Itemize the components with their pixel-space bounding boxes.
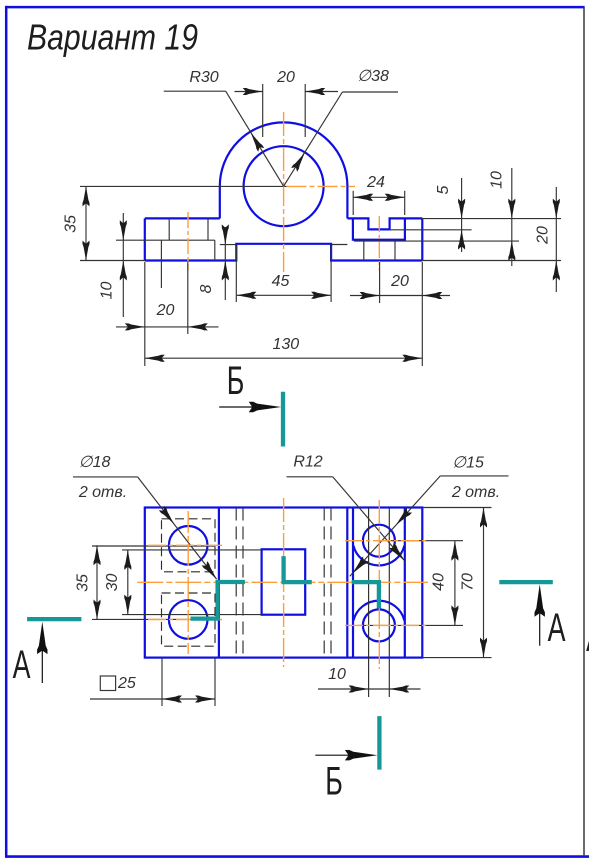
section B bottom arrowhead xyxy=(345,750,378,760)
upper boss R12 arc xyxy=(353,546,404,566)
svg-text:∅38: ∅38 xyxy=(357,68,389,85)
dim 20 bottom-right line xyxy=(350,295,450,297)
orange centerlines plan xyxy=(137,498,428,669)
svg-text:20: 20 xyxy=(276,69,295,86)
dim 10 left line xyxy=(122,213,124,317)
svg-text:Б: Б xyxy=(325,759,343,804)
svg-text:10: 10 xyxy=(489,171,506,189)
section A left arrowhead xyxy=(37,622,47,655)
R30 leader shelf xyxy=(164,90,226,92)
lower boss R12 arc xyxy=(353,601,404,621)
svg-text:∅15: ∅15 xyxy=(452,455,484,472)
lower hole d15 xyxy=(363,609,395,641)
ext 305.2 xyxy=(304,84,306,137)
hidden recess edge right xyxy=(330,508,332,658)
hole d15 edges front right xyxy=(394,241,396,261)
section A right arrow tail xyxy=(539,590,541,646)
arrow 10 up xyxy=(120,261,127,281)
arrow 20top left xyxy=(305,88,325,95)
hidden recess edge left xyxy=(235,508,237,658)
page frame top border xyxy=(5,6,585,9)
dim 10 right line xyxy=(511,168,513,266)
plan arrows xyxy=(94,506,488,703)
dim 70 plan line xyxy=(483,508,485,658)
section B bar top xyxy=(281,392,285,447)
bore circle d38 xyxy=(244,146,324,226)
arrow 35p up xyxy=(94,545,101,565)
arrow 70p down xyxy=(480,638,487,658)
centerline left hole front xyxy=(187,212,189,270)
plan labels xyxy=(75,454,501,693)
dim 20 bottom-left line xyxy=(116,326,219,328)
arrow d18 end xyxy=(202,561,220,581)
centerline boss vertical xyxy=(283,112,285,272)
thin ledge line left xyxy=(220,244,237,246)
center axis extension left xyxy=(80,185,287,187)
upper hole d15 xyxy=(363,525,395,557)
ext 331.1 down xyxy=(330,246,332,302)
arrow 35 top xyxy=(83,186,90,206)
hole d15 edges front left xyxy=(363,241,365,261)
dim 40 plan line xyxy=(454,541,456,626)
dim 130 line xyxy=(145,357,423,359)
section B jog bottom corner xyxy=(352,582,379,608)
arrow 30p up xyxy=(124,550,131,570)
svg-text:R30: R30 xyxy=(189,69,218,86)
upper hole d18 xyxy=(169,526,208,565)
dim sq25 line xyxy=(90,698,215,700)
hole d18 left edge front xyxy=(168,218,170,240)
dashed square upper xyxy=(162,519,216,572)
svg-text:25: 25 xyxy=(117,675,136,692)
page frame left border xyxy=(5,6,8,858)
arrow 40p down xyxy=(451,605,458,625)
arrow 20R up xyxy=(553,261,560,281)
ext upper d18 center xyxy=(92,545,215,547)
ext lower d18 center xyxy=(92,618,216,620)
arrow 30p down xyxy=(124,595,131,615)
arrow sq25 right xyxy=(195,696,215,703)
slot bottom extension line xyxy=(354,240,519,242)
svg-text:5: 5 xyxy=(435,185,452,194)
top edge extension right xyxy=(422,218,561,220)
hole bottom / square top line xyxy=(161,239,214,241)
hidden bore edge right xyxy=(323,508,325,658)
arrow sq25 left xyxy=(162,696,182,703)
plan extension lines xyxy=(73,476,509,706)
svg-text:8: 8 xyxy=(198,284,215,293)
arrow 10R down xyxy=(508,199,515,219)
arrow d15 end xyxy=(350,556,369,576)
right edge xyxy=(421,218,423,260)
svg-text:10: 10 xyxy=(328,666,346,683)
leader R12 diagonal xyxy=(333,477,405,561)
d38 leader shelf xyxy=(342,91,398,93)
svg-text:40: 40 xyxy=(431,573,448,591)
arrow 8 down xyxy=(222,224,229,244)
svg-text:70: 70 xyxy=(460,573,477,591)
bottom edge extension right xyxy=(422,260,561,262)
dim 45 line xyxy=(236,294,331,296)
svg-text:2 отв.: 2 отв. xyxy=(451,484,500,501)
label square symbol xyxy=(100,676,115,691)
dim 30 plan line xyxy=(127,550,129,615)
right block top edge with notch xyxy=(347,218,422,229)
centerline upper d15 horizontal xyxy=(345,540,428,542)
arrow 5 up xyxy=(458,230,465,250)
notch edge left plan xyxy=(368,508,370,698)
centerline main horizontal xyxy=(137,581,428,583)
dashed square lower xyxy=(162,593,216,646)
square 25 right edge front xyxy=(214,240,216,260)
ext square25 right xyxy=(214,658,216,706)
arrow 40p up xyxy=(451,541,458,561)
plan outline rectangle xyxy=(145,508,423,658)
section B top arrowhead xyxy=(249,402,282,412)
centerline upper d18 horizontal xyxy=(148,544,225,546)
boss right tangent xyxy=(346,186,348,218)
ext plan top edge xyxy=(422,507,491,509)
dim 5 right line xyxy=(461,178,463,252)
dim 10 plan line xyxy=(318,688,421,690)
arrow 45 right xyxy=(311,292,331,299)
slot outline right block xyxy=(353,218,405,239)
svg-text:30: 30 xyxy=(104,574,121,592)
section A left arrow tail xyxy=(41,628,43,683)
svg-text:45: 45 xyxy=(272,273,290,290)
bottom edge extension left xyxy=(80,260,145,262)
ext 187.8 down xyxy=(187,262,189,334)
dim 35 plan line xyxy=(96,545,98,619)
boss left tangent xyxy=(219,186,221,218)
arrow 45 left xyxy=(236,292,256,299)
arrow 20BR right xyxy=(360,292,380,299)
arrow 20R down xyxy=(553,199,560,219)
arrow 10R up xyxy=(508,241,515,261)
page frame right border xyxy=(583,7,585,856)
page frame bottom border xyxy=(5,855,589,858)
dim 20 top left part xyxy=(235,91,263,93)
svg-text:А: А xyxy=(548,606,566,651)
ext 353.2 up xyxy=(352,191,354,215)
section A right arrowhead xyxy=(535,584,545,617)
arrow 8 up xyxy=(222,261,229,281)
section B top arrow tail xyxy=(219,406,272,408)
dim 20 right line xyxy=(555,187,557,292)
leader d18 shelf xyxy=(73,476,138,478)
square 25 left edge front xyxy=(160,240,162,288)
ext upper d15 center xyxy=(386,540,463,542)
arrow 5 down xyxy=(458,199,465,219)
ext rect bottom xyxy=(122,614,262,616)
dim 35 line xyxy=(85,186,87,260)
left block top edge xyxy=(145,217,220,219)
arrow 20BL left xyxy=(188,323,208,330)
lower hole d18 xyxy=(169,600,208,639)
centerline right hole front xyxy=(378,216,380,270)
centerline center vertical xyxy=(283,498,285,667)
arrow 35p down xyxy=(94,600,101,620)
thin ledge line right xyxy=(331,244,347,246)
leader d15 diagonal xyxy=(350,476,441,576)
arrow 20top right xyxy=(243,88,263,95)
arrow 24 right xyxy=(385,194,405,201)
arrow 70p up xyxy=(480,508,487,528)
R30 leader diagonal xyxy=(226,91,284,186)
svg-text:20: 20 xyxy=(535,226,552,245)
center boss rect 20x30 xyxy=(262,549,306,614)
svg-text:R12: R12 xyxy=(293,454,322,471)
arrow d18 mid xyxy=(159,506,177,526)
arrow d38 on circle xyxy=(291,151,308,172)
ext 404.7 up xyxy=(404,191,406,215)
arrow R12 end xyxy=(389,543,407,563)
hole d18 right edge front xyxy=(207,218,209,240)
boss outer arc R30 xyxy=(220,122,348,186)
ext 144.8 down xyxy=(144,262,146,366)
centerline boss horizontal right xyxy=(287,185,356,187)
ext square25 left xyxy=(161,658,163,706)
svg-text:2 отв.: 2 отв. xyxy=(78,484,127,501)
section B bottom arrow tail xyxy=(315,754,368,756)
arrow 10 down xyxy=(120,220,127,240)
ext lower d15 center xyxy=(358,624,463,626)
arrow 20BL right xyxy=(125,323,145,330)
arrow R30 on arc xyxy=(248,131,264,152)
left block boundary line xyxy=(218,508,220,658)
ext 262.7 xyxy=(262,84,264,137)
svg-text:∅18: ∅18 xyxy=(79,454,111,471)
left edge xyxy=(144,218,146,260)
section B jog top corner xyxy=(284,556,312,582)
section A bar left xyxy=(27,617,81,621)
leader d15 shelf xyxy=(440,475,508,477)
notch edge right plan xyxy=(388,508,390,698)
orange centerlines front view xyxy=(188,112,379,272)
ext plan bottom edge xyxy=(422,657,491,659)
arrow 10p right xyxy=(349,686,369,693)
dim 24 line xyxy=(353,196,405,198)
ext 379.6 down xyxy=(379,262,381,303)
svg-text:20: 20 xyxy=(156,302,175,319)
centerline right holes vertical xyxy=(378,500,380,669)
leader d18 diagonal xyxy=(138,477,217,579)
ext rect top xyxy=(122,549,262,551)
boss tangent line plan xyxy=(346,508,348,658)
arrow 20BR left xyxy=(422,292,442,299)
bottom with recess xyxy=(145,244,423,261)
ext 422.3 down xyxy=(421,262,423,366)
hidden bore edge left xyxy=(242,508,244,658)
arrow 130 right xyxy=(402,355,422,362)
d38 leader diagonal xyxy=(284,92,343,186)
section B bar bottom xyxy=(377,716,381,770)
front view arrows xyxy=(83,88,560,362)
dim 8 line xyxy=(224,231,226,300)
svg-text:20: 20 xyxy=(390,273,409,290)
hole bottom extension left xyxy=(116,239,161,241)
centerline left holes vertical xyxy=(187,511,189,654)
arrow 24 left xyxy=(353,194,373,201)
svg-text:35: 35 xyxy=(75,574,92,592)
svg-text:Вариант 19: Вариант 19 xyxy=(27,17,198,58)
svg-text:35: 35 xyxy=(63,215,80,233)
section A bar right xyxy=(499,580,553,584)
svg-text:Б: Б xyxy=(227,359,245,404)
slot left edge plan xyxy=(352,508,354,658)
svg-text:10: 10 xyxy=(99,282,116,300)
arrow 35 bottom xyxy=(83,241,90,261)
dim 20 top right part xyxy=(305,91,338,93)
arrow d15 mid xyxy=(393,508,412,528)
section A jog left elbow xyxy=(191,582,245,619)
arrow 10p left xyxy=(389,686,409,693)
ext 236.3 down xyxy=(235,246,237,302)
slot right edge plan xyxy=(404,508,406,658)
front view dim labels xyxy=(63,68,552,353)
notch bottom extension line xyxy=(390,229,472,231)
svg-text:130: 130 xyxy=(272,336,299,353)
leader R12 shelf xyxy=(287,476,333,478)
svg-text:24: 24 xyxy=(366,174,385,191)
centerline lower d15 horizontal xyxy=(345,624,428,626)
arrow 130 left xyxy=(145,355,165,362)
centerline lower d18 horizontal xyxy=(148,619,225,621)
svg-text:А: А xyxy=(13,643,31,688)
